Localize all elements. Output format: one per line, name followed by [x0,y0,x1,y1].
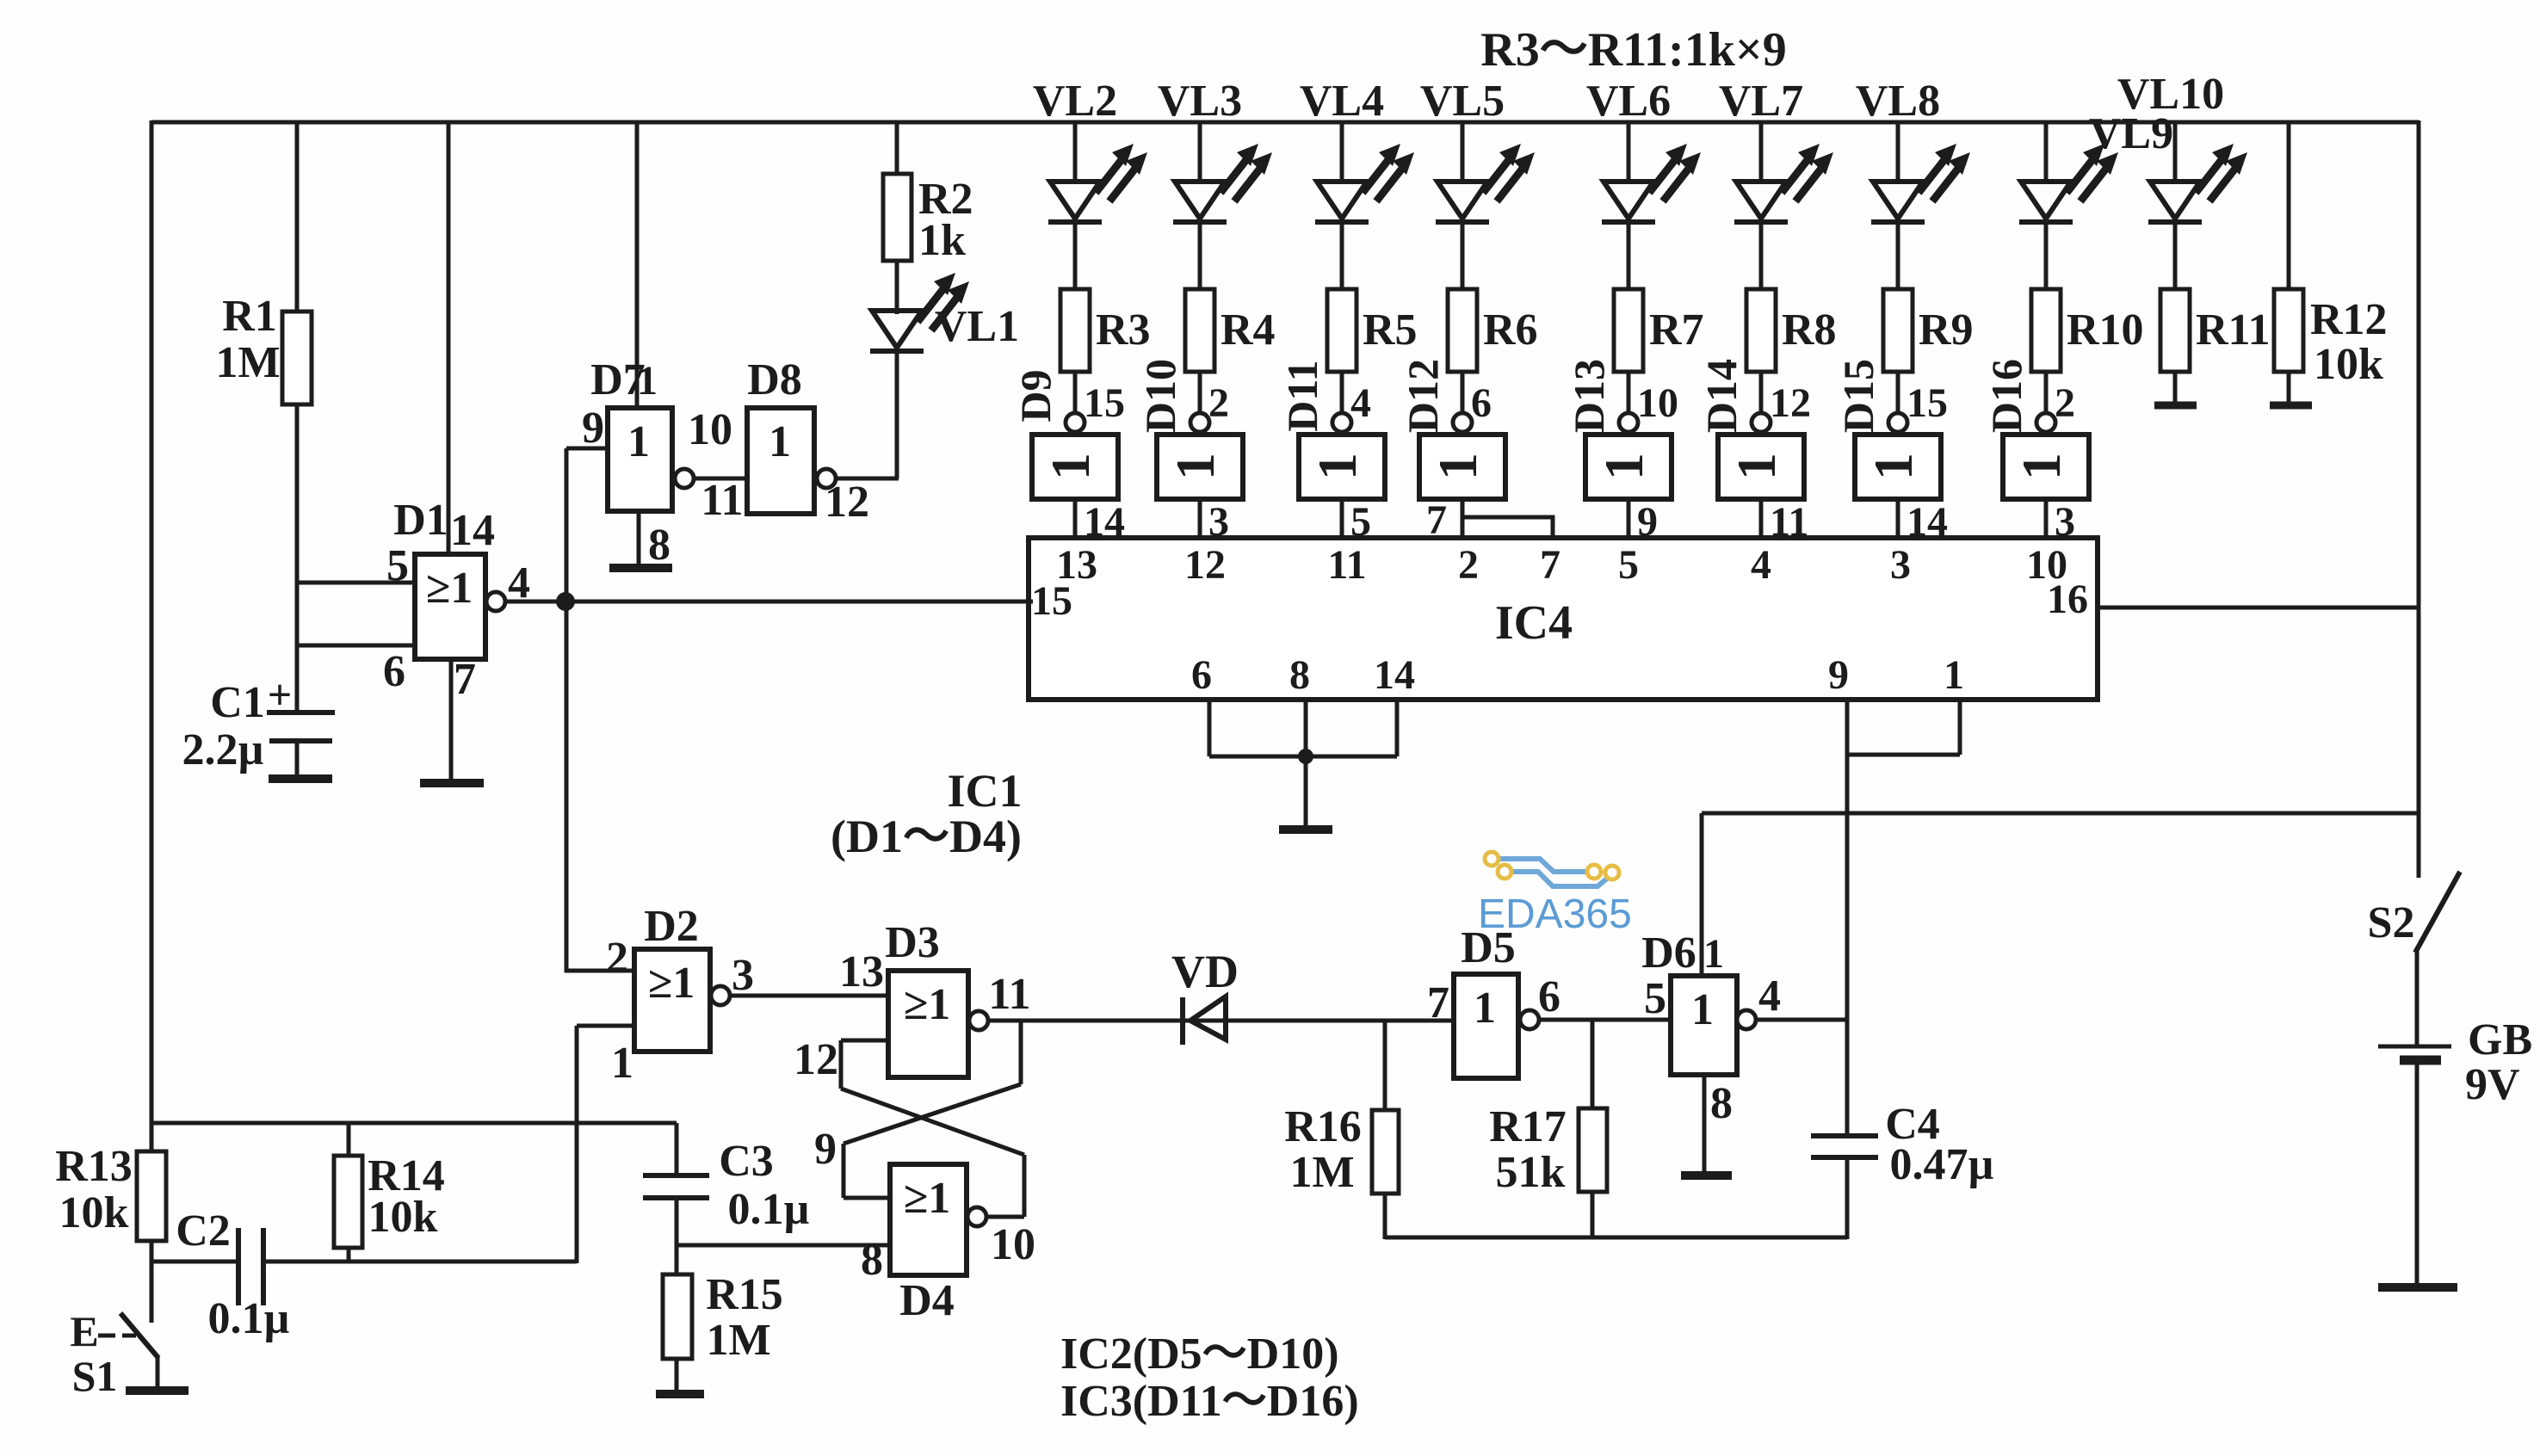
svg-text:1: 1 [1593,453,1654,480]
svg-text:6: 6 [1538,972,1560,1021]
inverter bubble D15 [1888,413,1907,432]
inverter bubble D9 [1066,413,1085,432]
pin IC4-14 [1374,652,1415,698]
wire D7 pin 8 [637,509,641,566]
svg-text:R12: R12 [2310,295,2388,344]
wire D15 to IC4 [1898,499,1948,545]
svg-text:VL5: VL5 [1420,77,1505,126]
svg-text:11: 11 [1327,542,1366,588]
wire C2 left [151,1260,240,1264]
led VL2 label [1033,77,1117,126]
svg-text:D14: D14 [1697,359,1746,433]
svg-text:D15: D15 [1834,359,1882,433]
wire IC4 pin 8 [1304,700,1308,756]
svg-text:1: 1 [611,1039,633,1088]
wire VL10 cathode [2173,221,2178,291]
svg-text:12: 12 [1184,542,1226,588]
svg-text:2: 2 [2055,380,2075,426]
wire D5 to D6 [1538,1018,1671,1022]
svg-text:14: 14 [1374,652,1415,698]
resistor R12 [2270,122,2388,405]
inverter D7 [582,355,744,570]
wire R17 to bus [1591,1192,1595,1239]
wire R5 to D11 [1342,372,1371,426]
wire power rail (top bus) [151,120,2419,125]
svg-text:9: 9 [1828,652,1849,698]
svg-text:8: 8 [648,521,671,570]
wire battery negative [2415,1064,2419,1286]
pin IC4-4 [1751,542,1771,588]
svg-text:10k: 10k [368,1193,438,1242]
wire VL4 anode [1340,122,1344,183]
svg-text:0.47µ: 0.47µ [1890,1140,1994,1189]
led VL10 label [2117,70,2224,119]
pin IC4-8 [1289,652,1310,698]
capacitor C3 [643,1137,810,1234]
pin IC4-12 [1184,542,1226,588]
svg-text:3: 3 [1890,542,1911,588]
led VL8 label [1856,77,1940,126]
svg-text:6: 6 [1191,652,1212,698]
svg-text:1M: 1M [215,338,280,387]
wire D7 pin 9 [566,448,608,972]
wire to IC4 ground [1304,756,1308,829]
inverter D16 [1982,359,2089,499]
svg-text:1: 1 [1040,453,1101,480]
svg-text:≥1: ≥1 [904,1174,951,1223]
svg-text:D1: D1 [393,496,448,545]
svg-text:R8: R8 [1782,305,1837,355]
junction IC4 ground [1298,749,1313,764]
note IC1 [831,765,1022,862]
svg-text:1: 1 [1863,453,1924,480]
resistor R7 [1614,289,1704,372]
svg-text:10k: 10k [2314,340,2383,389]
svg-text:2: 2 [1458,542,1479,588]
svg-text:IC3(D11～D16): IC3(D11～D16) [1060,1377,1359,1426]
resistor R8 [1746,289,1837,372]
svg-text:9: 9 [582,404,604,453]
svg-text:R1: R1 [222,292,277,341]
svg-text:IC4: IC4 [1495,596,1573,650]
svg-text:4: 4 [1751,542,1771,588]
or-gate D1 [383,496,530,704]
inverter D8 [747,355,869,527]
wire VL5 anode [1461,122,1465,183]
svg-text:R11: R11 [2196,305,2271,355]
wire D16 to IC4 [2046,499,2075,545]
or-gate D2 [606,902,754,1088]
wire D2 to D3 [729,994,888,998]
svg-text:D11: D11 [1278,360,1326,431]
svg-text:VL1: VL1 [935,302,1019,351]
svg-text:R13: R13 [55,1142,133,1191]
led VL6 [1602,144,1701,222]
led VL7 [1734,144,1833,222]
svg-text:1: 1 [1703,931,1724,977]
svg-text:10: 10 [688,405,732,454]
or-gate bubble D2 [711,986,730,1005]
svg-text:5: 5 [1618,542,1639,588]
capacitor C2 [176,1206,289,1343]
note IC2/IC3 [1060,1330,1359,1426]
wire VL3 cathode [1198,221,1202,291]
wire IC4 pin 1 [1847,700,1960,755]
wire VL2 anode [1073,122,1078,183]
svg-text:9: 9 [814,1125,837,1174]
svg-text:VL3: VL3 [1158,77,1242,126]
svg-text:VD: VD [1171,946,1239,997]
svg-text:1: 1 [1427,453,1488,480]
inverter bubble D14 [1752,413,1771,432]
svg-text:11: 11 [988,970,1030,1019]
svg-text:C1: C1 [210,678,265,727]
led VL9 [2019,144,2118,222]
wire C4 to bus [1845,1157,1850,1239]
pin IC4-1 [1944,652,1964,698]
wire C2 right [263,1260,577,1264]
wire left border (R13 column) [150,120,154,1323]
svg-text:VL7: VL7 [1719,77,1803,126]
wire D10 to IC4 [1200,499,1229,545]
wire IC4 pin 6 [1208,700,1212,756]
svg-text:8: 8 [1289,652,1310,698]
resistor R16 [1284,1102,1399,1197]
wire R16 to bus [1383,1194,1387,1239]
or-gate bubble D3 [969,1011,988,1030]
svg-text:7: 7 [454,655,476,704]
svg-text:1: 1 [1726,453,1787,480]
svg-text:+: + [268,670,293,719]
wire IC4 ground bus [1209,755,1397,759]
svg-text:5: 5 [386,541,409,590]
wire D9 to IC4 [1075,499,1125,545]
led VL9 label [2089,109,2173,158]
svg-text:R6: R6 [1483,305,1538,355]
svg-text:R10: R10 [2067,305,2144,355]
wire R7 to D13 [1628,372,1678,426]
note R3~R11 [1480,23,1787,77]
svg-text:1: 1 [1944,652,1964,698]
inverter bubble D6 [1737,1010,1756,1029]
led VL4 [1315,144,1414,222]
wire D3 out to D4 pin 9 [814,1021,1021,1198]
svg-text:15: 15 [1907,380,1948,426]
svg-text:1: 1 [627,417,650,466]
pin IC4-9 [1828,652,1849,698]
resistor R4 [1185,289,1276,372]
wire node 4 to IC4 pin 15 [504,600,1029,604]
svg-text:D10: D10 [1136,359,1184,433]
svg-text:11: 11 [701,476,743,525]
switch S1 [70,1307,188,1400]
wire R15 to ground [675,1359,679,1392]
svg-text:≥1: ≥1 [426,564,473,613]
led VL7 label [1719,77,1803,126]
svg-text:1: 1 [1474,984,1496,1033]
or-gate bubble D4 [967,1207,986,1226]
wire VL10 anode [2173,122,2178,183]
svg-text:R5: R5 [1363,305,1418,355]
led VL1 [870,273,1019,351]
svg-text:3: 3 [732,951,754,1000]
wire D6 out [1755,1018,1847,1022]
wire right border [2417,120,2421,878]
svg-text:14: 14 [450,506,495,555]
svg-text:8: 8 [1710,1079,1733,1128]
svg-text:R4: R4 [1221,305,1276,355]
pin IC4-10 [2026,542,2067,588]
wire VL9 anode [2044,122,2049,183]
svg-text:VL8: VL8 [1856,77,1940,126]
wire VL3 anode [1198,122,1202,183]
svg-text:D3: D3 [885,918,940,967]
svg-text:2: 2 [1208,380,1229,426]
svg-text:10: 10 [991,1220,1035,1269]
resistor R15 [663,1270,783,1365]
svg-text:VL6: VL6 [1586,77,1671,126]
svg-text:6: 6 [383,647,405,696]
inverter bubble D5 [1520,1010,1539,1029]
wire to R16 [1383,1021,1387,1112]
wire R8 to D14 [1761,372,1811,426]
resistor R10 [2031,289,2144,372]
wire IC4 pin 16 to rail [2098,606,2419,610]
led VL6 label [1586,77,1671,126]
inverter D15 [1834,359,1941,499]
led VL8 [1871,144,1970,222]
ground D1 pin 7 [420,779,484,787]
inverter bubble D11 [1332,413,1351,432]
wire D4 pin 8 [677,1243,890,1248]
svg-text:1: 1 [1691,985,1714,1034]
led VL5 [1436,144,1535,222]
svg-text:R15: R15 [706,1270,783,1319]
svg-text:C2: C2 [176,1206,231,1255]
inverter D11 [1278,360,1385,499]
wire R11 to ground [2173,372,2178,404]
svg-text:R9: R9 [1919,305,1974,355]
or-gate D3 [794,918,1031,1084]
pin IC4-5 [1618,542,1639,588]
wire R3 to D9 [1075,372,1125,426]
wire C3 top lead [675,1123,679,1175]
wire oscillator bus [151,1121,677,1126]
resistor R11 [2160,289,2271,372]
pin IC4-3 [1890,542,1911,588]
wire VL7 anode [1759,122,1764,183]
pin IC4-11 [1327,542,1366,588]
svg-text:7: 7 [1427,978,1449,1027]
svg-text:1: 1 [769,417,791,466]
wire R2 column [895,122,899,314]
resistor R3 [1060,289,1151,372]
wire D13 to IC4 [1628,499,1658,545]
svg-text:D8: D8 [747,355,802,404]
ground R11 [2154,402,2197,410]
svg-text:12: 12 [1770,380,1811,426]
svg-text:D2: D2 [644,902,699,951]
wire D1 pin 5 [297,581,415,585]
inverter bubble D7 [675,469,694,488]
svg-text:R3～R11:1k×9: R3～R11:1k×9 [1480,23,1787,77]
svg-text:1: 1 [1165,453,1226,480]
resistor R1 [215,292,312,404]
resistor R2 [883,174,973,265]
ground R15 [656,1390,704,1398]
inverter D13 [1565,359,1672,499]
svg-text:R16: R16 [1284,1102,1362,1151]
svg-text:VL4: VL4 [1300,77,1384,126]
wire D3 out [987,1019,1454,1023]
wire R6 to D12 [1462,372,1492,426]
wire D7 out to D8 [693,477,747,481]
svg-text:4: 4 [508,558,530,608]
svg-text:15: 15 [1031,578,1072,624]
wire VL9 cathode [2044,221,2049,291]
wire R4 to D10 [1200,372,1229,426]
resistor R17 [1489,1102,1607,1197]
svg-text:IC2(D5～D10): IC2(D5～D10) [1060,1330,1339,1379]
svg-text:12: 12 [794,1035,838,1084]
pin IC4-16 [2047,577,2088,622]
battery GB [2378,1015,2532,1109]
inverter bubble D8 [817,469,836,488]
wire IC4 pin 9 [1845,700,1850,1136]
pin IC4-6 [1191,652,1212,698]
svg-text:D6: D6 [1641,929,1696,978]
wire D2 pin 1 [577,1026,634,1263]
inverter bubble D10 [1190,413,1209,432]
svg-text:9V: 9V [2465,1060,2520,1109]
pin IC4-13 [1056,542,1097,588]
wire D6 pin 8 [1704,1075,1733,1174]
svg-text:6: 6 [1471,380,1492,426]
resistor R5 [1327,289,1418,372]
svg-text:D13: D13 [1565,359,1613,433]
node 4 junction [556,592,575,611]
pin IC4-7 [1540,542,1560,588]
wire VL5 cathode [1461,221,1465,291]
resistor R9 [1883,289,1974,372]
wire IC4 pin 14 [1395,700,1400,756]
led VL2 [1048,144,1147,222]
svg-text:2.2µ: 2.2µ [182,725,264,774]
capacitor C1 [182,670,335,775]
svg-text:5: 5 [1644,974,1666,1023]
svg-text:D4: D4 [899,1276,955,1325]
svg-text:1: 1 [637,358,658,404]
wire VL8 cathode [1896,221,1900,291]
svg-text:16: 16 [2047,577,2088,622]
switch S2 [2368,872,2460,1046]
svg-text:E: E [70,1307,98,1355]
pin IC4-15 [1029,578,1072,624]
svg-text:1: 1 [2011,453,2072,480]
wire D7 pin 1 [635,122,640,410]
wire R9 to D15 [1898,372,1948,426]
wire timing bottom bus [1385,1236,1847,1240]
led VL5 label [1420,77,1505,126]
svg-text:S2: S2 [2368,898,2415,947]
wire D1 pin 14 [447,122,451,556]
inverter D14 [1697,359,1804,499]
inverter D6 [1641,929,1781,1075]
svg-text:1M: 1M [706,1316,770,1365]
or-gate bubble D1 [486,592,505,611]
wire D12 to IC4 pin 7 (jog) [1426,497,1553,543]
svg-text:10: 10 [1637,380,1678,426]
inverter D9 [1011,369,1118,499]
wire D11 to IC4 [1342,499,1371,545]
svg-text:15: 15 [1084,380,1125,426]
wire VL8 anode [1896,122,1900,183]
svg-text:VL2: VL2 [1033,77,1117,126]
inverter D12 [1399,359,1505,499]
ground IC4 [1279,825,1332,834]
svg-text:R3: R3 [1096,305,1151,355]
wire D4 out to D3 pin 12 [841,1040,1024,1217]
watermark EDA365 [1478,852,1632,937]
capacitor C4 [1811,1100,1994,1189]
svg-text:4: 4 [1758,972,1781,1021]
wire D8 out to VL1 [831,347,899,478]
led VL3 label [1158,77,1242,126]
pin IC4-2 [1458,542,1479,588]
svg-text:51k: 51k [1496,1148,1566,1197]
wire C3 bottom lead [675,1198,679,1276]
svg-text:D12: D12 [1399,359,1447,433]
svg-text:D16: D16 [1982,359,2030,433]
svg-text:R17: R17 [1489,1102,1567,1151]
wire D1 pin 6 [297,644,415,648]
svg-text:R7: R7 [1649,305,1704,355]
svg-text:≥1: ≥1 [904,980,951,1029]
svg-text:GB: GB [2468,1015,2532,1064]
or-gate D4 [861,1164,1035,1325]
ground C1 [269,774,332,783]
led VL10 [2148,144,2247,222]
wire R1 column [295,122,300,713]
wire VL4 cathode [1340,221,1344,291]
svg-text:0.1µ: 0.1µ [728,1185,810,1234]
wire VL2 cathode [1073,221,1078,291]
svg-text:D9: D9 [1011,369,1060,422]
wire VL6 cathode [1627,221,1631,291]
svg-text:2: 2 [606,934,628,983]
resistor R6 [1448,289,1538,372]
svg-text:EDA365: EDA365 [1478,891,1632,937]
inverter D5 [1427,923,1560,1078]
inverter bubble D13 [1619,413,1638,432]
inverter bubble D12 [1453,413,1472,432]
ground battery [2378,1283,2457,1292]
wire D2 pin 2 [565,969,634,973]
resistor R14 [334,1123,445,1263]
svg-text:0.1µ: 0.1µ [208,1294,290,1343]
svg-text:4: 4 [1350,380,1371,426]
svg-text:1k: 1k [918,216,966,265]
ic U-IC4 [1029,538,2098,700]
svg-text:(D1～D4): (D1～D4) [831,811,1022,862]
svg-text:S1: S1 [72,1352,118,1400]
wire R10 to D16 [2046,372,2075,426]
svg-text:7: 7 [1540,542,1560,588]
svg-text:IC1: IC1 [947,765,1022,817]
diode VD [1171,946,1239,1045]
svg-text:≥1: ≥1 [648,959,695,1008]
svg-text:1M: 1M [1289,1148,1354,1197]
